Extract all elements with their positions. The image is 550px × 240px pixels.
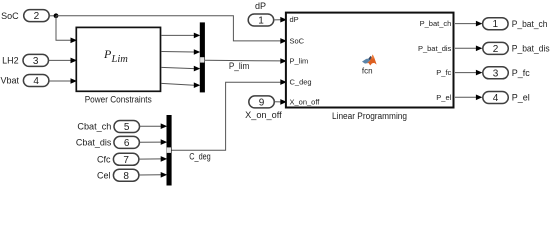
svg-text:4: 4 bbox=[493, 93, 499, 104]
wire PC out1 to mux bbox=[161, 34, 194, 36]
svg-text:Lim: Lim bbox=[111, 54, 129, 65]
wire SoC to Linear Programming (top run) bbox=[56, 16, 281, 41]
mux output nub bbox=[200, 57, 204, 62]
block Power Constraints (P_Lim) bbox=[76, 27, 160, 91]
svg-text:P_bat_ch: P_bat_ch bbox=[512, 19, 548, 29]
inport 4 (Vbat) bbox=[23, 75, 49, 88]
svg-text:2: 2 bbox=[34, 11, 40, 22]
svg-text:2: 2 bbox=[493, 44, 499, 55]
wire LP out3 to outport 3 bbox=[455, 72, 476, 74]
inport 3 (LH2) bbox=[23, 54, 49, 67]
outport 3 (P_fc) bbox=[483, 67, 509, 80]
wire P_lim mux to Linear Programming bbox=[205, 59, 281, 62]
svg-text:7: 7 bbox=[123, 155, 129, 166]
svg-text:LH2: LH2 bbox=[2, 55, 19, 65]
wire Cbat_ch to mux bbox=[140, 125, 162, 127]
MATLAB logo bbox=[362, 55, 377, 66]
svg-text:8: 8 bbox=[123, 171, 129, 182]
svg-text:Vbat: Vbat bbox=[0, 76, 19, 86]
wire LH2 to Power Constraints bbox=[49, 59, 71, 61]
inport 2 (SoC) bbox=[24, 10, 50, 23]
mux C_deg (vertical bar) bbox=[167, 115, 172, 186]
svg-text:Linear Programming: Linear Programming bbox=[332, 111, 407, 121]
inport 8 (Cel) bbox=[113, 169, 138, 182]
svg-text:P_bat_ch: P_bat_ch bbox=[420, 19, 452, 28]
svg-text:Power Constraints: Power Constraints bbox=[85, 94, 152, 104]
svg-text:Cbat_ch: Cbat_ch bbox=[77, 121, 111, 131]
inport 6 (Cbat_dis) bbox=[114, 136, 139, 149]
wire SoC branch down into Power Constraints bbox=[56, 16, 71, 41]
wire X_on_off to Linear Programming bbox=[274, 101, 280, 103]
outport 4 (P_el) bbox=[483, 92, 509, 105]
wire C_deg mux to Linear Programming bbox=[172, 82, 281, 150]
inport 7 (Cfc) bbox=[113, 153, 138, 166]
svg-text:P_fc: P_fc bbox=[436, 68, 451, 77]
wire PC out4 to mux bbox=[161, 83, 194, 85]
svg-text:dP: dP bbox=[255, 1, 266, 11]
svg-text:C_deg: C_deg bbox=[189, 152, 211, 162]
svg-text:Cbat_dis: Cbat_dis bbox=[76, 137, 112, 147]
wire PC out3 to mux bbox=[161, 67, 194, 68]
inport 5 (Cbat_ch) bbox=[114, 121, 140, 134]
wire Cel to mux bbox=[139, 174, 161, 176]
svg-text:P_el: P_el bbox=[436, 93, 451, 102]
inport 1 (dP) bbox=[248, 14, 274, 27]
outport 2 (P_bat_dis) bbox=[483, 42, 509, 55]
wire SoC oval to junction bbox=[49, 15, 56, 17]
svg-text:C_deg: C_deg bbox=[290, 78, 312, 87]
wire LP out1 to outport 1 bbox=[455, 23, 476, 25]
block Linear Programming (MATLAB Function fcn) bbox=[286, 13, 454, 108]
wire Cfc to mux bbox=[139, 158, 161, 160]
wire LP out4 to outport 4 bbox=[455, 96, 476, 98]
inport 9 (X_on_off) bbox=[249, 96, 274, 109]
svg-text:1: 1 bbox=[258, 16, 264, 27]
svg-text:P_bat_dis: P_bat_dis bbox=[512, 44, 550, 54]
wire dP to Linear Programming bbox=[274, 19, 281, 21]
wire Cbat_dis to mux bbox=[139, 141, 161, 143]
svg-text:P_fc: P_fc bbox=[512, 68, 531, 78]
node junction on SoC line bbox=[54, 13, 59, 18]
wire LP out2 to outport 2 bbox=[455, 47, 476, 49]
svg-text:dP: dP bbox=[290, 15, 299, 24]
svg-text:X_on_off: X_on_off bbox=[290, 97, 321, 106]
svg-text:1: 1 bbox=[493, 19, 499, 30]
wire Vbat to Power Constraints bbox=[49, 80, 71, 82]
svg-text:6: 6 bbox=[124, 138, 130, 149]
svg-text:SoC: SoC bbox=[1, 11, 19, 21]
mux P_lim (vertical bar) bbox=[200, 22, 205, 92]
svg-text:P_el: P_el bbox=[512, 93, 530, 103]
svg-text:9: 9 bbox=[259, 98, 265, 109]
svg-text:5: 5 bbox=[124, 122, 130, 133]
svg-text:fcn: fcn bbox=[362, 66, 373, 75]
svg-text:SoC: SoC bbox=[290, 37, 305, 46]
svg-text:P_lim: P_lim bbox=[229, 61, 250, 71]
svg-text:3: 3 bbox=[493, 68, 499, 79]
wire PC out2 to mux bbox=[161, 51, 194, 54]
svg-text:P_lim: P_lim bbox=[290, 57, 309, 66]
svg-text:X_on_off: X_on_off bbox=[245, 110, 282, 120]
outport 1 (P_bat_ch) bbox=[483, 18, 509, 31]
svg-text:Cfc: Cfc bbox=[97, 154, 111, 164]
svg-text:P_bat_dis: P_bat_dis bbox=[418, 44, 452, 53]
mux output nub bbox=[167, 147, 171, 153]
svg-text:3: 3 bbox=[33, 56, 39, 67]
svg-text:4: 4 bbox=[33, 76, 39, 87]
svg-text:Cel: Cel bbox=[97, 170, 111, 180]
